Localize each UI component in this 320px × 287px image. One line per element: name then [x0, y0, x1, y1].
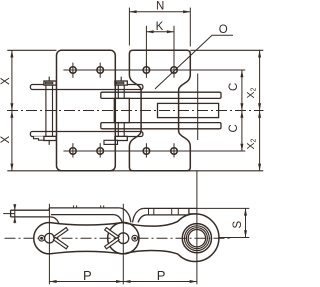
svg-text:C: C: [228, 124, 240, 132]
wire top extension line right (X2): [190, 49, 263, 51]
dimension S: [197, 208, 249, 237]
pin-2 bottom cap: [115, 136, 127, 140]
dimension X (left, two): [10, 50, 13, 171]
svg-text:N: N: [156, 1, 164, 13]
dimension P (two): [49, 171, 197, 284]
hole center-plate bottom-left: [143, 143, 150, 157]
tab B hole ticks: [74, 205, 104, 208]
dimension C (right, two): [240, 70, 243, 151]
hole center-plate top-left: [143, 63, 150, 78]
leader line O: [155, 35, 233, 89]
hole center-plate top-right: [171, 63, 178, 78]
pin-1 circle (side): [45, 233, 55, 243]
hole construction line top: [63, 69, 245, 71]
svg-text:P: P: [157, 268, 166, 283]
pin-2 circle (side): [118, 233, 129, 244]
tab B (attachment-1 platform, side): [49, 208, 131, 223]
bushing block right (plan): [158, 103, 219, 117]
svg-text:X: X: [0, 77, 12, 85]
wire bottom extension line full: [7, 170, 263, 172]
bent ear bars at pin-2: [105, 228, 119, 249]
tab C (attachment-2 platform, side): [133, 208, 197, 222]
svg-text:K: K: [156, 21, 164, 33]
pin-2 (plan): [117, 85, 119, 98]
pin-1 bottom cap: [44, 136, 56, 140]
roller at pin-3 (side): [182, 224, 211, 253]
svg-text:O: O: [219, 24, 228, 36]
dimension N: [129, 8, 190, 47]
inner plate band bottom (plan): [101, 123, 221, 129]
hole center-plate bottom-right: [171, 143, 178, 157]
link plate 2-3 (side): [108, 214, 219, 262]
svg-text:X: X: [0, 136, 12, 144]
link plate 1-2 (side): [34, 223, 139, 254]
wire top extension line left (X): [7, 49, 56, 51]
hole left-plate top-right: [97, 63, 104, 78]
centerline (bottom view): [5, 237, 231, 239]
hole left-plate bottom-left: [70, 143, 77, 157]
centerline (top view): [7, 110, 264, 112]
pin-1 (plan): [45, 85, 47, 136]
tab A (left, side): [11, 210, 59, 223]
pin-1 bottom clip: [34, 136, 48, 140]
hole construction line bottom: [63, 150, 245, 152]
left attachment plate (plan): [57, 50, 116, 171]
ring near pin-2: [132, 235, 138, 241]
pin-2 top cap: [115, 81, 127, 85]
tab C hole ticks: [149, 208, 179, 215]
svg-text:S: S: [232, 221, 244, 229]
center attachment plate (plan): [129, 50, 190, 171]
pin-2 bottom clip: [104, 140, 118, 144]
dimension tab thickness (left): [3, 204, 16, 223]
dimension K: [146, 26, 174, 66]
inner plate band top (plan): [101, 92, 221, 98]
pin verticals (bottom view): [49, 204, 123, 255]
ring near pin-1: [39, 235, 45, 241]
roller at pin-2 (plan): [114, 98, 129, 122]
pin-1 top cap: [44, 81, 56, 85]
hole left-plate top-left: [70, 63, 77, 78]
bent ear bars at pin-1: [54, 228, 68, 249]
outer plate band top (plan): [30, 85, 142, 90]
outer plate band bottom (plan): [30, 132, 142, 137]
pin-3 centerline (plan): [197, 74, 199, 141]
svg-text:P: P: [83, 268, 92, 283]
hole left-plate bottom-right: [97, 143, 104, 157]
dimension X2 (far right, two): [258, 50, 261, 171]
svg-text:C: C: [228, 83, 240, 91]
